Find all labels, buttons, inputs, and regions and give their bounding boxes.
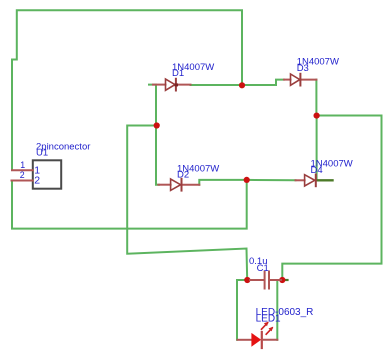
connector U1 pin 1 stub — [12, 169, 33, 171]
wire LED cathode up to C1 right node — [276, 281, 278, 340]
svg-text:2: 2 — [20, 170, 25, 180]
wire node D branch to lower left, diagonal to C1 left node — [127, 126, 247, 281]
svg-text:U1: U1 — [36, 148, 48, 159]
wire node B down to D4 cathode — [316, 116, 318, 180]
capacitor C1 — [250, 272, 281, 289]
wire net AC2: U1 pin2 down, across bottom, up to node C — [12, 180, 247, 229]
svg-text:D3: D3 — [297, 63, 309, 74]
diode D2 — [158, 179, 199, 191]
wire node C to D4 anode — [247, 179, 296, 181]
LED light arrow 2 — [266, 327, 273, 335]
wire node B right edge down and into C1 right node — [282, 116, 381, 281]
diode D3 — [284, 74, 316, 86]
wire stub right of C1 right node (dark green) — [283, 279, 287, 281]
junction C1 right — [279, 277, 285, 283]
LED LED1 — [238, 332, 278, 348]
connector U1 pin 2 stub — [12, 180, 33, 182]
svg-text:D1: D1 — [172, 68, 184, 79]
svg-text:2: 2 — [34, 175, 40, 187]
D1 pin joint blob — [175, 83, 178, 86]
wire D1 cathode to node A — [191, 84, 243, 86]
connector U1 body — [33, 160, 61, 188]
junction C1 left — [244, 277, 250, 283]
svg-text:D2: D2 — [177, 170, 189, 181]
diode D1 — [153, 79, 191, 91]
junction node B — [314, 113, 320, 119]
junction node D on left vertical — [154, 122, 160, 128]
wire D2 cathode step up to node C — [199, 180, 246, 185]
svg-text:1: 1 — [20, 160, 25, 170]
wire net AC1: U1 pin1 up, across top, down to node A — [12, 10, 242, 169]
junction node A — [239, 82, 245, 88]
LED light arrow 1 — [262, 322, 269, 330]
wire node A to D3 anode — [242, 80, 284, 85]
diode D4 — [296, 175, 316, 187]
svg-text:D4: D4 — [311, 165, 323, 176]
svg-text:C1: C1 — [257, 263, 269, 274]
wire D3 cathode down to node B — [315, 80, 317, 116]
wire C1 left node jog down to LED anode — [237, 280, 247, 340]
junction node C — [244, 177, 250, 183]
wire net N2: D1 anode left vertical down to D2 anode — [149, 85, 159, 185]
svg-text:LED1: LED1 — [256, 314, 281, 325]
wire D4 cathode overlap segment (dark green) — [317, 179, 333, 181]
